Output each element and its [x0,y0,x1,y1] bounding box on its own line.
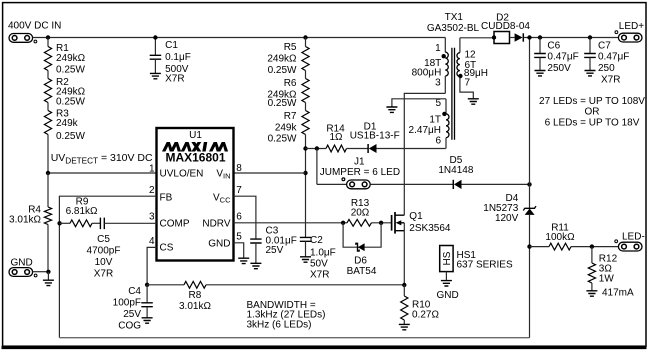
svg-text:249k: 249k [56,118,79,129]
transistor Q1 2SK3564 [391,215,393,231]
svg-text:6 LEDs = UP TO 18V: 6 LEDs = UP TO 18V [545,117,640,128]
connector LED+ [618,33,642,42]
svg-text:C5: C5 [97,234,110,245]
svg-text:C6: C6 [547,40,560,51]
svg-text:2SK3564: 2SK3564 [409,223,451,234]
svg-text:100kΩ: 100kΩ [545,232,575,243]
svg-text:GND: GND [208,238,230,249]
node junction C7 [588,35,592,39]
svg-text:417mA: 417mA [602,287,634,298]
wire C6 drop [539,38,541,54]
svg-text:U1: U1 [189,130,202,141]
svg-text:R6: R6 [284,78,297,89]
svg-text:3kHz (6 LEDs): 3kHz (6 LEDs) [247,319,312,330]
connector J-GND [9,268,33,277]
wire GND stadium to junction [33,271,49,273]
wire R11 lead [530,246,550,248]
wire R8 line [147,284,184,286]
resistor R4 [44,207,51,225]
svg-text:C4: C4 [128,286,141,297]
node junction C1 [153,35,157,39]
svg-text:0.47μF: 0.47μF [598,52,629,63]
diode D6 BAT54 [356,243,359,251]
capacitor C7 [584,54,596,58]
wire GND pin 5 [234,243,244,258]
svg-text:R1: R1 [56,43,69,54]
svg-text:X7R: X7R [94,269,113,280]
svg-text:MAX16801: MAX16801 [165,151,225,165]
node junction secondary/D2 [492,35,496,39]
svg-text:LED-: LED- [622,232,645,243]
svg-text:X7R: X7R [165,74,184,85]
svg-text:1Ω: 1Ω [329,132,343,143]
ground C7 [585,71,596,76]
wire jumper line left [317,183,347,185]
svg-text:2.47μH: 2.47μH [409,125,441,136]
wire D2 node down through D4 [529,38,531,209]
svg-text:0.25W: 0.25W [56,65,85,76]
ground C4 [142,318,153,323]
node junction D5/D4 [527,182,531,186]
wire R12 lead [591,247,593,263]
transformer TX1 secondary winding (pins 12-7) [459,38,461,53]
svg-text:JUMPER = 6 LED: JUMPER = 6 LED [320,167,400,178]
capacitor C2 [300,237,311,241]
capacitor C4 [141,303,153,307]
svg-text:CUDD8-04: CUDD8-04 [481,21,530,32]
svg-text:3.01kΩ: 3.01kΩ [179,301,211,312]
wire D6 loop [343,223,381,247]
wire NDRV pin 6 to gate [234,222,392,224]
svg-text:COMP: COMP [160,219,190,230]
node junction chain/R14 [303,146,307,150]
diode D1 US1B-13-F [367,144,369,153]
wire R11 to LED- [571,246,618,248]
wire UVLO/EN pin 1 [48,172,157,174]
resistor R6 [302,79,309,103]
resistor R10 [401,296,408,320]
wire R8 to Q1 source node [206,284,404,286]
heatsink HS1 [440,246,453,272]
wire R1-R2 [47,71,49,79]
svg-text:0.25W: 0.25W [268,65,297,76]
svg-text:US1B-13-F: US1B-13-F [350,130,400,141]
svg-text:1W: 1W [599,273,615,284]
svg-text:6: 6 [435,136,441,147]
svg-text:1.0μF: 1.0μF [310,247,336,258]
resistor R5 [302,47,309,71]
svg-text:J1: J1 [354,157,365,168]
wire loop bottom [59,337,529,339]
ground C3 [250,263,261,268]
connector LED- [618,242,642,251]
wire R9 to C5 [92,222,100,224]
svg-text:50V: 50V [310,258,328,269]
svg-text:1N4148: 1N4148 [438,165,473,176]
svg-text:TX1: TX1 [445,12,464,23]
svg-text:X7R: X7R [310,270,329,281]
wire R5-R6 [305,71,307,79]
svg-text:10V: 10V [95,257,113,268]
wire D2 to LED+ [524,37,619,39]
wire R14 to D1 [347,148,369,150]
node junction FB/R9 [57,221,61,225]
diode D4 1N5273 zener [523,206,536,210]
svg-text:249k: 249k [275,123,298,134]
svg-text:637 SERIES: 637 SERIES [457,259,513,270]
svg-text:100pF: 100pF [113,297,141,308]
svg-text:4700pF: 4700pF [87,246,121,257]
wire TX1 pin5 to ground [392,99,446,107]
wire loop right up to R11 junction [529,247,531,338]
svg-text:OR: OR [585,107,600,118]
svg-text:GA3502-BL: GA3502-BL [427,23,480,34]
wire UVLO junction to R4 [47,173,49,207]
wire R14 line [306,148,327,150]
wire J1 drop [316,149,318,185]
transformer TX1 core [452,48,455,140]
op-amp U1 MAX16801 box [157,128,234,261]
node junction J1 tee [315,146,319,150]
svg-text:COG: COG [118,320,141,331]
svg-text:0.47μF: 0.47μF [547,52,578,63]
ground HS1 [441,281,452,286]
wire D1 to transformer pin 6 [377,148,446,150]
wire R9 lead [59,222,70,224]
resistor R13 [347,219,371,226]
svg-text:5: 5 [236,232,242,243]
svg-text:C2: C2 [310,235,323,246]
node junction input/R1 [46,35,50,39]
svg-text:X7R: X7R [601,74,620,85]
wire CS pin 4 to C4 junction [147,247,156,284]
svg-text:6.81kΩ: 6.81kΩ [66,206,98,217]
wire R1 chain top [47,38,49,47]
node junction C6 [538,35,542,39]
resistor R1 [44,47,51,71]
svg-text:25V: 25V [123,309,141,320]
svg-text:2: 2 [149,185,155,196]
svg-text:FB: FB [160,192,173,203]
ground R12 [586,291,597,296]
wire C1 drop [154,38,156,56]
svg-text:249kΩ: 249kΩ [267,53,297,64]
capacitor C6 [534,54,546,58]
svg-text:GND: GND [437,290,459,301]
node junction D2/down-line [527,35,531,39]
node junction NDRV/R13 left [341,221,345,225]
svg-text:UVLO/EN: UVLO/EN [160,168,204,179]
svg-text:R7: R7 [284,111,297,122]
resistor R11 [549,243,571,250]
wire Q1 source down [403,223,405,285]
svg-text:0.25W: 0.25W [268,134,297,145]
resistor R2 [44,79,51,103]
svg-text:Q1: Q1 [409,211,423,222]
wire D5 to D4 node [462,183,530,185]
wire jumper line right to D5 [370,183,453,185]
wire VIN pin 8 [234,172,306,174]
capacitor C5 [100,218,104,230]
svg-text:7: 7 [236,185,242,196]
resistor R14 [326,145,347,152]
svg-text:1: 1 [149,163,155,174]
wire R7 to VIN junction and C2 [305,135,307,238]
svg-text:CS: CS [160,242,174,253]
svg-text:8: 8 [236,163,242,174]
wire top rail from input to transformer pin 1 [33,37,446,39]
svg-text:250: 250 [598,63,615,74]
svg-text:3: 3 [435,77,441,88]
svg-text:1: 1 [435,43,441,54]
svg-text:120V: 120V [495,213,519,224]
svg-text:0.25W: 0.25W [56,96,85,107]
svg-text:R5: R5 [284,42,297,53]
svg-text:0.25W: 0.25W [268,98,297,109]
wire VCC pin 7 to C3 [234,196,256,239]
resistor R12 [588,263,595,283]
wire C7 drop [589,38,591,54]
svg-text:250V: 250V [547,63,571,74]
node junction GND [46,270,50,274]
node junction R13 right [379,221,383,225]
ground C6 [535,71,546,76]
wire C5 to COMP pin 3 [104,222,156,224]
connector J-IN (400V DC IN) [9,34,33,43]
svg-text:BAT54: BAT54 [347,266,377,277]
resistor R8 [184,281,206,288]
resistor R3 [44,111,51,135]
capacitor C1 [150,55,162,59]
op-amp U1 MAXIM logo [162,142,228,152]
resistor R9 [70,220,92,227]
ground U1 pin 5 [238,258,249,263]
svg-text:0.27Ω: 0.27Ω [412,310,439,321]
svg-text:20Ω: 20Ω [351,208,370,219]
svg-text:C7: C7 [598,40,611,51]
wire R10 lead [403,285,405,296]
wire C4 drop [146,285,148,303]
svg-text:0.1μF: 0.1μF [165,52,191,63]
transformer TX1 aux winding (pins 5-6) [445,99,447,114]
svg-text:4: 4 [149,236,155,247]
ground (input) [47,272,49,280]
svg-text:R8: R8 [189,290,202,301]
wire FB pin 2 to loop [59,196,156,338]
capacitor C3 [250,239,261,243]
ground C1 [150,73,161,78]
node junction rail/R5 [303,35,307,39]
ground TX1 pin 7 [468,99,479,104]
svg-text:27 LEDs = UP TO 108V: 27 LEDs = UP TO 108V [539,96,645,107]
wire R4 to GND [47,225,49,272]
svg-text:C1: C1 [165,40,178,51]
diode D2 CUDD8-04 [494,32,510,44]
wire R2-R3 [47,103,49,111]
svg-text:25V: 25V [266,245,284,256]
svg-text:3: 3 [149,211,155,222]
diode D5 1N4148 [452,180,454,189]
svg-text:249kΩ: 249kΩ [56,53,86,64]
wire R6-R7 [305,103,307,111]
svg-text:3.01kΩ: 3.01kΩ [9,215,41,226]
node junction R12 [590,244,594,248]
wire Q1 drain to transformer pin 3 [404,93,445,215]
wire R5 chain top [305,38,307,47]
wire R3 to UVLO junction [47,135,49,174]
node junction CS/C4/R8 [145,283,149,287]
node junction D4/R11/loop [527,244,531,248]
ground C2 [300,257,311,262]
svg-text:HS: HS [442,251,453,265]
ground TX1 pin 5 [386,107,397,112]
svg-text:NDRV: NDRV [202,219,230,230]
node junction UVLO [46,171,50,175]
svg-text:400V DC IN: 400V DC IN [8,21,61,32]
node junction source/R10/R8 [402,283,406,287]
svg-text:6: 6 [236,211,242,222]
transformer TX1 primary winding (pins 1-3) [444,38,446,53]
svg-text:5: 5 [435,98,441,109]
svg-text:GND: GND [11,257,33,268]
svg-text:0.25W: 0.25W [56,131,85,142]
ground R10 [399,324,410,329]
svg-text:7: 7 [465,78,471,89]
node junction VIN [303,171,307,175]
resistor R7 [302,111,309,135]
svg-text:LED+: LED+ [619,21,644,32]
